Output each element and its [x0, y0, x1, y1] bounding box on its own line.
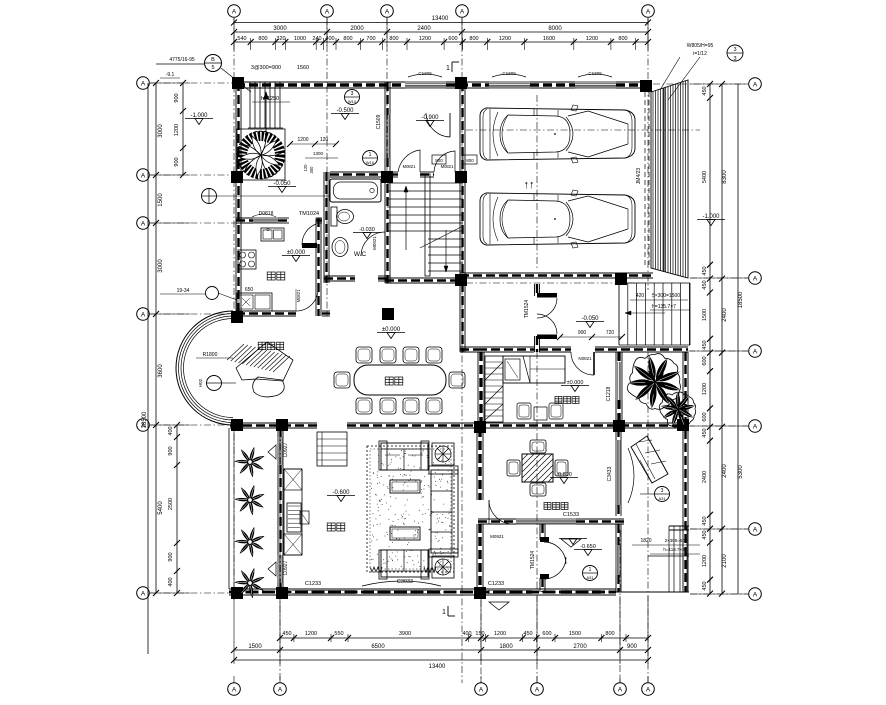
axis bubble bottom B3 [475, 683, 488, 696]
svg-text:420: 420 [636, 293, 645, 299]
svg-text:18500: 18500 [738, 291, 744, 308]
kitchen stove [238, 250, 256, 269]
axis centerline y=594 right [690, 593, 748, 595]
svg-text:A: A [460, 8, 465, 15]
bay window arcs [176, 311, 233, 425]
svg-text:1820: 1820 [640, 538, 651, 544]
svg-text:A: A [479, 686, 484, 693]
axis centerline x=648 [647, 18, 649, 290]
spring coil symbol right of bottom sofa [424, 567, 436, 572]
axis bubble right R2 [749, 272, 762, 285]
svg-text:1: 1 [442, 609, 446, 616]
axis centerline x=462 [461, 18, 463, 683]
axis centerline x=327 [326, 18, 328, 316]
svg-text:450: 450 [702, 280, 708, 289]
svg-text:h=1250: h=1250 [261, 96, 280, 102]
sofa top 2-seat [381, 443, 428, 470]
bottom-right terrace steps [668, 526, 670, 592]
axis bubble left L2 [137, 169, 150, 182]
svg-text:i=1/12: i=1/12 [693, 51, 707, 57]
svg-text:700: 700 [366, 36, 375, 42]
svg-text:13400: 13400 [429, 664, 446, 670]
svg-text:1: 1 [589, 567, 592, 573]
svg-text:W10: W10 [348, 99, 357, 104]
axis bubble bottom B4 [531, 683, 544, 696]
corner table top with fan [432, 443, 454, 465]
svg-text:800: 800 [343, 36, 352, 42]
star plants left [236, 448, 264, 476]
main stair up arrow 1 [405, 186, 407, 250]
dim chain right mid [721, 84, 723, 594]
svg-text:W.C: W.C [354, 251, 367, 258]
svg-text:450: 450 [702, 581, 708, 590]
axis centerline x=481 bottom [480, 600, 482, 683]
circle court 3/A31 [655, 487, 670, 502]
svg-text:C1209: C1209 [418, 71, 432, 76]
svg-text:3900: 3900 [399, 631, 411, 637]
svg-text:2700: 2700 [573, 644, 587, 650]
svg-text:A: A [385, 8, 390, 15]
column at 237,317 [231, 311, 243, 323]
dim chain left fine top [182, 83, 184, 175]
kitchen bottom wall [236, 310, 296, 312]
svg-text:600: 600 [542, 631, 551, 637]
entry steps right [618, 283, 620, 345]
dim chain right fine [709, 84, 711, 594]
svg-text:N0821: N0821 [578, 356, 592, 361]
axis bubble left L3 [137, 217, 150, 230]
kitchen counter bottom [237, 293, 272, 311]
svg-text:C1233: C1233 [305, 581, 321, 587]
svg-text:M0821: M0821 [403, 164, 416, 169]
circle 3/W10 court [345, 90, 360, 105]
svg-text:1200: 1200 [494, 631, 506, 637]
svg-text:2400: 2400 [702, 471, 708, 483]
TV cabinet left [284, 469, 302, 555]
svg-text:A: A [141, 220, 146, 227]
svg-text:A: A [753, 348, 758, 355]
axis bubble left L4 [137, 308, 150, 321]
svg-text:1560: 1560 [297, 65, 309, 71]
main stair treads upper [387, 182, 463, 184]
detail circle 1 kitchen court [202, 189, 217, 204]
column at 237,177 [231, 171, 243, 183]
axis bubble right R6 [749, 588, 762, 601]
svg-text:120: 120 [320, 137, 329, 143]
axis centerline y=84 right [653, 83, 748, 85]
svg-text:540: 540 [237, 36, 246, 42]
axis centerline y=593 left [150, 592, 232, 594]
axis centerline y=175 left [150, 174, 236, 176]
svg-text:B: B [211, 57, 215, 63]
bay circle H02 [207, 376, 222, 391]
svg-text:900: 900 [578, 330, 587, 336]
living room label [327, 523, 335, 531]
svg-text:3: 3 [733, 47, 736, 53]
svg-text:A: A [618, 686, 623, 693]
svg-text:A: A [141, 172, 146, 179]
car 2 in garage [480, 193, 635, 245]
svg-text:900: 900 [174, 93, 180, 102]
leisure rock lower blob [253, 377, 285, 397]
triangle marker bottom 2 [561, 539, 581, 547]
svg-text:C1533: C1533 [563, 512, 579, 518]
axis centerline x=234 [233, 18, 235, 316]
svg-text:720: 720 [606, 330, 615, 336]
svg-text:TM1024: TM1024 [299, 211, 319, 217]
dining table oval [354, 365, 446, 395]
wash basin [332, 238, 348, 257]
stair block top wall [390, 171, 398, 173]
left exterior wall upper [235, 82, 237, 316]
svg-text:C1233: C1233 [488, 581, 504, 587]
svg-text:600: 600 [702, 356, 708, 365]
axis centerline y=223 left [150, 222, 236, 224]
svg-text:1200: 1200 [586, 36, 598, 42]
window open triangle 2 [268, 562, 276, 576]
svg-text:A: A [535, 686, 540, 693]
axis bubble left L1 [137, 77, 150, 90]
dining table label [385, 377, 393, 385]
chess chairs [530, 440, 546, 453]
svg-text:900: 900 [168, 446, 174, 455]
svg-text:3000: 3000 [158, 124, 164, 138]
column at 480,427 [474, 421, 486, 433]
svg-text:1200: 1200 [297, 137, 308, 143]
svg-text:2000: 2000 [350, 26, 364, 32]
svg-text:400: 400 [168, 426, 174, 435]
svg-text:5400: 5400 [158, 501, 164, 515]
kitchen side door arc [296, 288, 318, 311]
door M0821 arc 1 on stair top [398, 150, 420, 172]
svg-text:8300: 8300 [722, 170, 728, 184]
corner table bottom with fan [432, 556, 454, 578]
svg-text:A: A [141, 590, 146, 597]
svg-text:h=135.7×7: h=135.7×7 [652, 304, 676, 310]
svg-text:150: 150 [475, 631, 484, 637]
svg-text:1500: 1500 [248, 644, 262, 650]
ramp leader line [668, 57, 700, 100]
svg-text:TM1524: TM1524 [524, 300, 530, 319]
axis centerline y=278 right [690, 277, 748, 279]
axis bubble right R4 [749, 420, 762, 433]
dim extension left [150, 82, 190, 84]
coffee table 1 [390, 480, 420, 493]
axis centerline y=426 right [688, 425, 748, 427]
nanny table [534, 407, 547, 420]
living small stair [317, 432, 347, 466]
bathtub [330, 179, 381, 202]
axis centerline y=351 right [688, 350, 748, 352]
svg-text:6500: 6500 [371, 644, 385, 650]
axis bubble top A3 [381, 5, 394, 18]
axis centerline y=529 right [690, 528, 748, 530]
svg-text:450: 450 [702, 530, 708, 539]
svg-text:2400: 2400 [722, 464, 728, 478]
column at 461,177 [455, 171, 467, 183]
dim chain top total 13400 [234, 22, 648, 24]
axis bubble top A4 [456, 5, 469, 18]
svg-text:450: 450 [702, 516, 708, 525]
dim chain top level2 [234, 31, 648, 33]
svg-text:400: 400 [462, 631, 471, 637]
bottom door TM1524 [540, 537, 549, 542]
court left wall with window C3433 [615, 428, 617, 440]
column at 387,177 [381, 171, 393, 183]
svg-text:800: 800 [469, 36, 478, 42]
svg-text:2400: 2400 [417, 26, 431, 32]
svg-text:650: 650 [245, 287, 254, 293]
svg-text:19-34: 19-34 [177, 288, 190, 294]
nanny chair 2 [549, 403, 563, 419]
svg-text:800: 800 [258, 36, 267, 42]
svg-text:400: 400 [168, 577, 174, 586]
svg-text:2500: 2500 [168, 498, 174, 510]
svg-text:800: 800 [389, 36, 398, 42]
nanny-court divider wall with window C1218 [615, 352, 617, 362]
axis bubble right R5 [749, 523, 762, 536]
axis bubble bottom B5 [614, 683, 627, 696]
axis centerline x=620 bottom [619, 530, 621, 683]
svg-text:C3033: C3033 [397, 579, 413, 585]
nanny room bed [503, 356, 565, 383]
svg-text:450: 450 [702, 86, 708, 95]
toilet [331, 207, 337, 226]
dim chain left fine bottom [176, 425, 178, 593]
column at 619,426 [613, 420, 625, 432]
chess room label [544, 503, 551, 510]
door M0821 nanny [593, 352, 595, 375]
svg-text:300: 300 [309, 166, 314, 174]
column at 480,593 [474, 587, 486, 599]
chess table with hatch [522, 454, 553, 482]
svg-text:R1800: R1800 [203, 352, 218, 358]
svg-text:450: 450 [702, 428, 708, 437]
TV set [287, 503, 301, 532]
window label arc C1209 no.3 [578, 74, 612, 77]
svg-text:W805/H=95: W805/H=95 [687, 43, 714, 49]
svg-text:A: A [753, 591, 758, 598]
svg-text:2×300=600: 2×300=600 [665, 538, 688, 543]
svg-text:2100: 2100 [722, 554, 728, 568]
svg-text:C0927: C0927 [283, 442, 289, 457]
svg-text:M0921: M0921 [490, 534, 504, 539]
WC right wall with window C1509 [384, 82, 386, 115]
court door arc [449, 113, 451, 137]
svg-text:5×300=1500: 5×300=1500 [652, 293, 680, 299]
svg-text:550: 550 [334, 631, 343, 637]
svg-text:A: A [646, 686, 651, 693]
column at 683,425 [677, 419, 689, 431]
svg-text:4775/16-95: 4775/16-95 [169, 57, 195, 63]
axis centerline x=280 bottom [279, 430, 281, 683]
svg-text:1800: 1800 [499, 644, 513, 650]
svg-text:JM4/23: JM4/23 [636, 168, 642, 185]
svg-text:2400: 2400 [722, 308, 728, 322]
svg-text:800: 800 [466, 158, 474, 163]
porch dims 900 720 [564, 337, 620, 339]
car 1 in garage [480, 108, 635, 160]
axis bubble top A1 [228, 5, 241, 18]
main stair arrow 2 [445, 230, 447, 272]
svg-text:18500: 18500 [142, 411, 148, 428]
svg-text:1200: 1200 [702, 383, 708, 395]
svg-text:A: A [232, 686, 237, 693]
sofa bottom 2-seat [381, 550, 428, 577]
WC bottom wall [324, 275, 355, 277]
porch interior wall stub [460, 351, 478, 353]
garage left wall [459, 82, 461, 283]
chess room bottom wall with window C1533 [478, 518, 516, 520]
column at 461,83 [455, 77, 467, 89]
kitchen text [267, 272, 275, 280]
top exterior wall [236, 81, 405, 83]
svg-text:600: 600 [448, 36, 457, 42]
ramp hatched area top-right [651, 80, 688, 278]
dim extension right [690, 83, 748, 85]
svg-text:A: A [232, 8, 237, 15]
nanny wardrobe ladder [485, 356, 503, 422]
steps arrow [625, 312, 665, 314]
svg-text:W10: W10 [366, 160, 375, 165]
svg-text:C1209: C1209 [502, 71, 516, 76]
porch wall with door TM1524 [534, 284, 536, 296]
svg-text:C0927: C0927 [283, 560, 289, 575]
stair arrow [265, 92, 267, 135]
tree small right [659, 392, 695, 427]
svg-text:A: A [278, 686, 283, 693]
dim chain bottom total 13400 [234, 659, 648, 661]
chaise in court [631, 436, 668, 483]
right rooms top wall [460, 346, 478, 348]
svg-text:h=118.7×3: h=118.7×3 [663, 547, 685, 552]
svg-text:A: A [753, 275, 758, 282]
svg-text:3@300=900: 3@300=900 [251, 65, 281, 71]
svg-text:TM1524: TM1524 [530, 551, 536, 570]
svg-text:320: 320 [276, 36, 285, 42]
WC door arc [361, 232, 385, 256]
axis bubble left L6 [137, 587, 150, 600]
window label arc C1209 no.1 [408, 74, 442, 77]
kitchen right wall [315, 218, 317, 316]
window label arc C1209 no.2 [492, 74, 526, 77]
svg-text:C1509: C1509 [376, 114, 382, 129]
entry stair top-left treads [249, 82, 251, 128]
svg-text:3600: 3600 [158, 364, 164, 378]
column at 646,86 [640, 80, 652, 92]
middle wall y=425 [230, 422, 317, 424]
coffee table 2 [390, 527, 420, 540]
column at 388,314 [382, 308, 394, 320]
axis bubble bottom B6 [642, 683, 655, 696]
double door TM1524 middle leaves [537, 293, 557, 298]
garage bottom wall [460, 272, 653, 274]
tree big right [627, 354, 680, 410]
circle chess 3/A31b [590, 292, 592, 294]
svg-text:3: 3 [661, 488, 664, 494]
axis bubble top A5 [642, 5, 655, 18]
axis bubble bottom B2 [274, 683, 287, 696]
svg-text:1200: 1200 [499, 36, 511, 42]
svg-text:120: 120 [303, 164, 308, 172]
svg-text:1200: 1200 [305, 631, 317, 637]
svg-text:A: A [753, 526, 758, 533]
nanny chair 1 [517, 403, 531, 419]
living room carpet stipple [367, 446, 454, 572]
nanny room label [555, 397, 562, 404]
hall left wall x=543 bottom [539, 524, 541, 540]
planter box [237, 129, 285, 180]
svg-text:M0821: M0821 [441, 164, 454, 169]
column at 621,279 [615, 273, 627, 285]
svg-text:A: A [141, 80, 146, 87]
svg-text:M0921: M0921 [372, 236, 377, 250]
dim chain left main [155, 83, 157, 593]
svg-text:450: 450 [702, 266, 708, 275]
main stair stringer [425, 174, 430, 276]
axis centerline y=314 left [150, 313, 238, 315]
svg-text:A: A [141, 311, 146, 318]
main stair treads lower right [428, 238, 463, 240]
axis bubble right R1 [749, 78, 762, 91]
axis centerline x=387 [386, 18, 388, 175]
column at 282,425 [276, 419, 288, 431]
stair block bottom wall [385, 277, 465, 279]
dim chain bottom mid [234, 649, 648, 651]
svg-text:3: 3 [733, 56, 736, 62]
garage car centerline [466, 129, 700, 131]
svg-text:-9.1: -9.1 [166, 72, 175, 78]
svg-text:3000: 3000 [158, 259, 164, 273]
spring coil symbol left of bottom sofa [370, 567, 382, 572]
column at 237,425 [231, 419, 243, 431]
dining chairs [356, 347, 372, 363]
kitchen top wall [236, 217, 253, 219]
svg-text:5400: 5400 [702, 171, 708, 183]
svg-text:A31: A31 [586, 575, 594, 580]
svg-text:1600: 1600 [543, 36, 555, 42]
dim extension lines bottom [233, 596, 235, 664]
svg-text:1200: 1200 [702, 555, 708, 567]
column at 461,280 [455, 274, 467, 286]
svg-text:3: 3 [351, 91, 354, 97]
svg-text:1500: 1500 [569, 631, 581, 637]
circle ramp 3/3 [727, 45, 743, 61]
svg-text:1500: 1500 [702, 309, 708, 321]
svg-text:1200: 1200 [174, 124, 180, 136]
spiral bush [242, 136, 280, 174]
leisure rock hatched [236, 342, 293, 381]
svg-text:800: 800 [618, 36, 627, 42]
svg-text:450: 450 [282, 631, 291, 637]
svg-text:A: A [646, 8, 651, 15]
triangle marker bottom 1 [489, 602, 509, 610]
bottom exterior wall [229, 588, 616, 590]
dim chain bottom fine [280, 637, 648, 639]
svg-text:900: 900 [174, 157, 180, 166]
svg-text:800: 800 [605, 631, 614, 637]
svg-text:1: 1 [369, 152, 372, 158]
circle 1/W10 bath [363, 151, 378, 166]
column at 238,83 [232, 77, 244, 89]
svg-text:3000: 3000 [273, 26, 287, 32]
svg-text:C1218: C1218 [606, 386, 612, 401]
court curtain arc [628, 448, 634, 503]
svg-text:H02: H02 [198, 378, 203, 387]
svg-text:A: A [325, 8, 330, 15]
svg-text:A: A [753, 81, 758, 88]
svg-text:1500: 1500 [158, 193, 164, 207]
